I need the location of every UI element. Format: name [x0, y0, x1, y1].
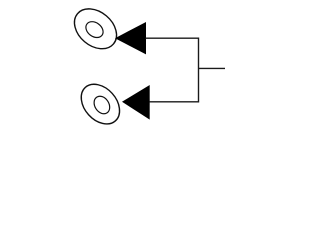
wire from LS1 to right bus	[146, 37, 199, 39]
loudspeaker LS1 cone (filled triangle)	[115, 22, 146, 54]
loudspeaker LS2 cone (filled triangle)	[122, 85, 150, 120]
loudspeaker LS2 magnet ring (outer ellipse)	[74, 77, 128, 132]
wire vertical bus	[198, 38, 200, 103]
wire output stub	[199, 67, 226, 69]
loudspeaker LS1 magnet ring (outer ellipse)	[67, 1, 125, 57]
loudspeaker LS2 magnet ring hole (inner ellipse)	[91, 93, 113, 116]
wire from LS2 to right bus	[149, 101, 198, 103]
loudspeaker LS1 magnet ring hole (inner ellipse)	[83, 18, 106, 40]
